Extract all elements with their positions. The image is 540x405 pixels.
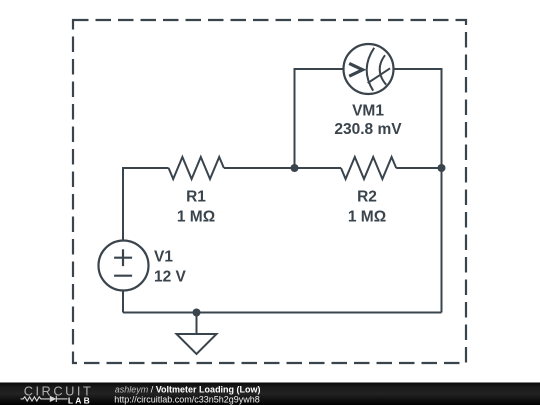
wire: bottom rail [123, 312, 442, 314]
svg-text:http://circuitlab.com/c33n5h2g: http://circuitlab.com/c33n5h2g9ywh8 [114, 395, 260, 405]
wire: R2 right lead [396, 167, 441, 169]
node A junction dot [291, 164, 299, 172]
svg-text:ashleym / Voltmeter Loading (L: ashleym / Voltmeter Loading (Low) [115, 385, 261, 395]
resistor R1 [169, 157, 224, 179]
wire: R1 left lead and left vertical to V1 [123, 168, 169, 241]
voltage source V1 [99, 241, 149, 291]
ground [177, 313, 217, 355]
svg-text:1 MΩ: 1 MΩ [348, 209, 386, 226]
wire: R1 right lead [224, 167, 295, 169]
diode triangle [50, 396, 57, 402]
wire: node A up to voltmeter left [295, 69, 344, 168]
selection dashed box [73, 20, 466, 363]
wire: R2 left lead [295, 167, 342, 169]
svg-text:V1: V1 [154, 249, 173, 266]
ground junction dot [193, 309, 201, 317]
wire: node B down right side [441, 168, 443, 313]
svg-text:R1: R1 [186, 189, 206, 206]
svg-text:1 MΩ: 1 MΩ [177, 209, 215, 226]
resistor R2 [341, 157, 396, 179]
footer bar [0, 383, 540, 405]
svg-text:VM1: VM1 [352, 103, 384, 120]
CircuitLab logo zigzag + diode [21, 396, 68, 402]
wire: voltmeter right to node B [394, 69, 442, 168]
svg-text:R2: R2 [357, 189, 377, 206]
voltmeter VM1 [344, 44, 394, 94]
svg-text:12 V: 12 V [154, 269, 187, 286]
svg-text:230.8 mV: 230.8 mV [334, 121, 402, 138]
svg-text:LAB: LAB [68, 395, 92, 405]
wire: V1 bottom to rail [122, 291, 124, 313]
node B junction dot [438, 164, 446, 172]
